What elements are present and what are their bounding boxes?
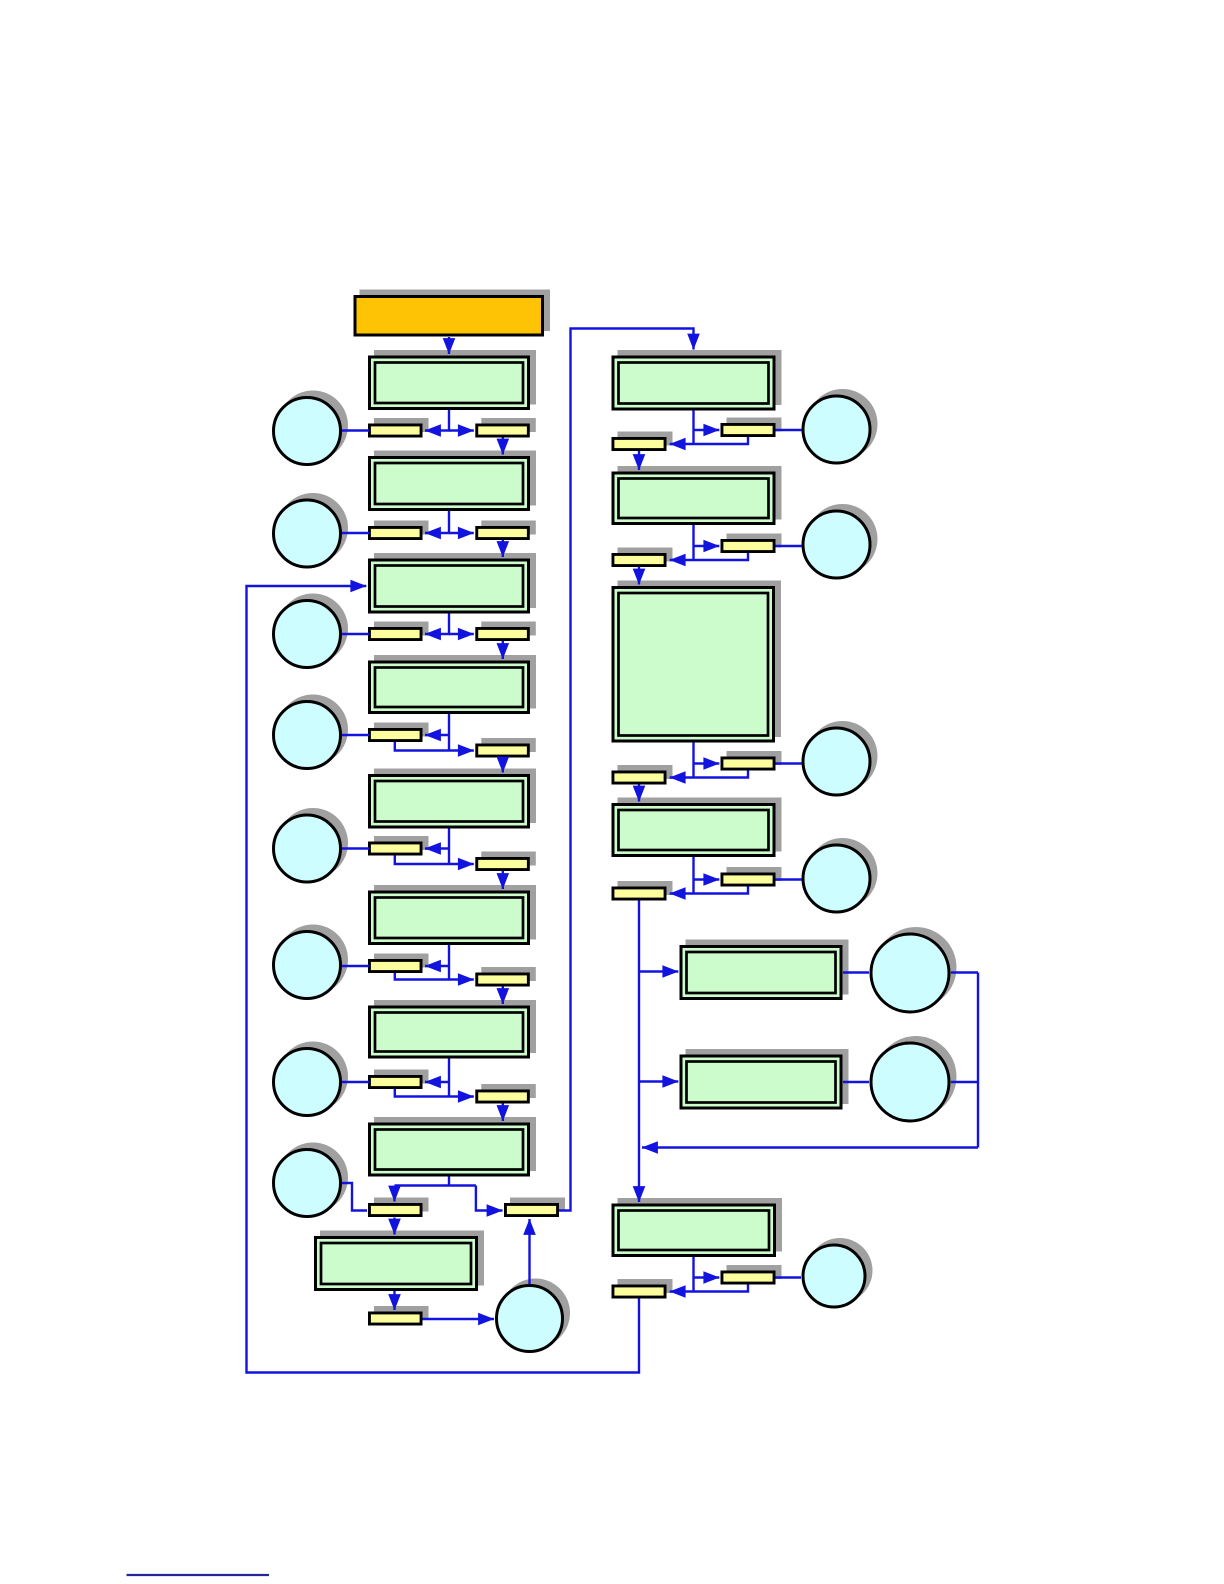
wire right tag down to next box: [502, 871, 504, 889]
yellow tag R3 left: [613, 765, 673, 783]
wire right tag to circle: [776, 762, 803, 764]
wire box bottom down: [448, 945, 450, 980]
process box L8 (green, left column): [370, 1117, 537, 1175]
yellow tag L3 left: [369, 622, 428, 640]
wire branch to left tag: [425, 847, 449, 849]
yellow tag R5 right: [722, 1265, 782, 1283]
circle C4 (left column): [274, 695, 349, 769]
wire return line down: [977, 973, 979, 1148]
wire branch to R5 right tag: [694, 1276, 720, 1278]
process box R5 (green, bottom right): [613, 1198, 782, 1256]
wire left tag to right tag: [395, 742, 474, 751]
wire circle M1c to return line: [951, 971, 978, 973]
wire right tag down to next box: [502, 758, 504, 773]
wire box M2 to circle M2c: [843, 1081, 869, 1083]
circle D1 (right column): [803, 389, 878, 463]
wire circle to left tag: [342, 1081, 369, 1083]
wire circle B1 up to L8-right tag: [528, 1219, 530, 1284]
yellow tag L4 right: [477, 738, 536, 756]
yellow tag R1 left: [613, 432, 673, 450]
wire right tag to left tag: [670, 887, 748, 894]
circle D4 (right column): [803, 838, 878, 912]
wire box L9 to bottom tag: [393, 1291, 395, 1310]
wire box bottom down: [692, 743, 694, 778]
wire box M1 to circle M1c: [843, 971, 869, 973]
process box R1 (green, right column): [613, 350, 782, 409]
wire left tag down to next box: [638, 785, 640, 802]
wire right tag down to next box: [502, 540, 504, 557]
process box L4 (green, left column): [370, 655, 537, 713]
wire box bottom to left tag: [425, 410, 449, 431]
circle C3 (left column): [274, 594, 349, 668]
wire L8-left tag to box L9: [393, 1218, 395, 1235]
wire circle C8 to L8-left tag: [342, 1183, 367, 1211]
yellow tag L1 left: [369, 418, 428, 436]
yellow tag R1 right: [722, 418, 782, 436]
wire left tag to right tag: [395, 1089, 474, 1097]
circle C2 (left column): [274, 493, 349, 567]
yellow tag L7 left: [369, 1070, 428, 1088]
yellow tag L8 left: [369, 1198, 428, 1216]
process box L5 (green, left column): [370, 769, 537, 828]
yellow tag under box L9: [369, 1306, 428, 1324]
process box L6 (green, left column): [370, 885, 537, 944]
circle B1 (bottom middle): [497, 1279, 571, 1352]
wire branch to right tag: [694, 429, 720, 431]
yellow tag R2 right: [722, 534, 782, 552]
process box R2 (green, right column): [613, 466, 782, 524]
wire R5 right tag to left tag: [670, 1285, 748, 1292]
circle C1 (left column): [274, 391, 349, 465]
yellow tag L4 left: [369, 723, 428, 741]
process box L9 (green, bottom left): [316, 1231, 485, 1290]
process box R4 (green, right column): [613, 798, 782, 856]
wire left tag to right tag: [395, 856, 474, 865]
wire return line to main vertical: [642, 1146, 978, 1148]
wire left tag down to next box: [638, 567, 640, 585]
process box L7 (green, left column): [370, 1000, 537, 1057]
yellow tag L5 right: [477, 852, 536, 870]
wire branch to right tag: [694, 878, 720, 880]
wire box bottom to left tag: [425, 614, 449, 635]
wire box bottom down: [692, 411, 694, 445]
wire right tag to circle: [776, 545, 803, 547]
wire left tag down to next box: [638, 451, 640, 470]
circle C5 (left column): [274, 808, 349, 882]
wire box bottom down: [692, 525, 694, 560]
yellow tag L3 right: [477, 622, 536, 640]
yellow tag R3 right: [722, 751, 782, 769]
wire split crossbar: [395, 1184, 476, 1186]
wire right tag down to next box: [502, 987, 504, 1005]
wire branch to left tag: [425, 1081, 449, 1083]
wire right tag down to next box: [502, 438, 504, 455]
circle C7 (left column): [274, 1042, 349, 1116]
wire box bottom down: [448, 829, 450, 865]
wire circle M2c to return line: [951, 1081, 978, 1083]
wire right tag to circle: [776, 429, 803, 431]
circle C8 (left column): [274, 1143, 349, 1217]
wire split to right tag: [449, 633, 474, 635]
yellow tag L2 left: [369, 521, 428, 539]
yellow tag R4 left: [613, 881, 673, 899]
wire branch to right tag: [694, 762, 720, 764]
wire branch to box M2: [639, 1080, 678, 1082]
wire box bottom to left tag: [425, 511, 449, 533]
wire branch to left tag: [425, 965, 449, 967]
wire split to right tag: [449, 429, 474, 431]
wire L8-right tag up over to R1: [559, 329, 694, 1211]
process box R3 (large green square): [613, 581, 781, 742]
start box (orange): [355, 290, 550, 336]
yellow tag R4 right: [722, 867, 782, 885]
process box L3 (green, left column): [370, 553, 537, 612]
process box L1 (green, left column): [370, 350, 537, 409]
wire circle to left tag: [342, 532, 369, 534]
circle D5 (bottom right): [803, 1238, 873, 1307]
wire right tag down to next box: [502, 641, 504, 659]
yellow tag L8 right: [505, 1198, 565, 1216]
wire right tag to left tag: [670, 553, 748, 560]
wire circle to left tag: [342, 633, 369, 635]
yellow tag L6 right: [477, 967, 536, 985]
wire circle to left tag: [342, 429, 369, 431]
circle M1c (middle branch upper): [871, 927, 957, 1012]
yellow tag L5 left: [369, 836, 428, 854]
yellow tag L7 right: [477, 1084, 536, 1102]
wire circle to left tag: [342, 965, 369, 967]
wire right tag down to next box: [502, 1104, 504, 1122]
circle D3 (right column): [803, 721, 878, 795]
wire right tag to circle: [776, 878, 803, 880]
footer rule (navy): [127, 1574, 270, 1576]
yellow tag R2 left: [613, 548, 673, 566]
wire R5 right tag to circle D5: [776, 1276, 802, 1278]
wire branch to left tag: [425, 734, 449, 736]
wire right tag to left tag: [670, 771, 748, 778]
yellow tag L6 left: [369, 954, 428, 972]
wire branch to right tag: [694, 545, 720, 547]
wire feedback loop to L3: [247, 586, 640, 1373]
wire box bottom down: [692, 857, 694, 894]
process box M2 (green, middle branch lower): [681, 1049, 849, 1108]
circle D2 (right column): [803, 504, 878, 578]
wire box R5 bottom down: [692, 1257, 694, 1292]
wire left tag to right tag: [395, 973, 474, 980]
wire split to right tag: [449, 532, 474, 534]
wire right tag to left tag: [670, 437, 748, 444]
wire branch to box M1: [639, 970, 678, 972]
wire circle to left tag: [342, 847, 369, 849]
wire split down-right to L8-right tag: [476, 1186, 503, 1211]
wire L8 bottom split: [448, 1177, 450, 1186]
yellow tag L1 right: [477, 418, 536, 436]
wire box bottom down: [448, 714, 450, 751]
process box M1 (green, middle branch upper): [681, 940, 849, 999]
wire split down to L8-left tag: [393, 1186, 395, 1202]
circle M2c (middle branch lower): [871, 1036, 957, 1121]
yellow tag R5 left: [613, 1279, 673, 1297]
wire main vertical to R5: [638, 901, 640, 1203]
process box L2 (green, left column): [370, 451, 537, 510]
wire start to L1: [448, 337, 450, 354]
wire circle to left tag: [342, 734, 369, 736]
wire bottom tag to circle B1: [423, 1318, 495, 1320]
yellow tag L2 right: [477, 521, 536, 539]
wire box bottom down: [448, 1059, 450, 1097]
circle C6 (left column): [274, 925, 349, 999]
